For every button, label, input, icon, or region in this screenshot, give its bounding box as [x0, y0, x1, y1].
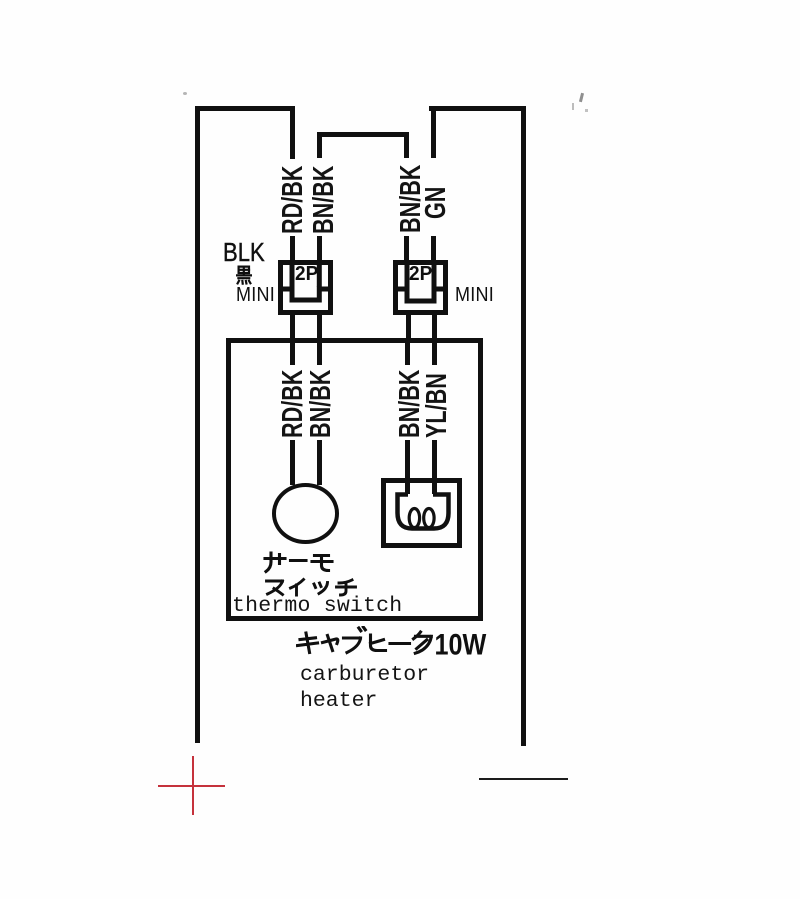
wire: GN drop from top-right harness: [431, 106, 436, 158]
wire: RD/BK stub inside box: [290, 343, 295, 365]
wire: BN/BK stub into right connector: [404, 236, 409, 261]
wire: BN/BK stub inside box (right): [405, 343, 410, 365]
svg-text:10W: 10W: [435, 627, 488, 659]
label: thermo switch (Japanese katakana, line 1): [263, 551, 335, 574]
wire: BN/BK from left connector to component box: [317, 315, 322, 341]
label: wire BN/BK (upper, right connector): [397, 165, 426, 233]
label: thermo switch (Japanese katakana, line 2): [264, 576, 360, 597]
label: kanji black (kuro): [236, 265, 252, 285]
wire: outer harness top-right horizontal: [429, 106, 526, 111]
connector: left 2P MINI (black): [278, 260, 333, 315]
label: MINI (right connector size): [455, 285, 494, 305]
wire: GN stub into right connector: [431, 236, 436, 261]
wire: YL/BN stub inside box: [432, 343, 437, 365]
label: BLK (connector colour): [223, 239, 265, 265]
wire: BN/BK stub inside box: [317, 343, 322, 365]
thermo switch circle: [272, 483, 340, 544]
heater element: cup and coil: [376, 472, 468, 552]
label: MINI (left connector size): [236, 285, 275, 305]
wire: jumper bracket left stub: [317, 132, 322, 158]
wire: RD/BK stub into left connector: [290, 236, 295, 261]
wire: outer harness left vertical: [195, 106, 200, 743]
connector: right 2P MINI: [393, 260, 448, 315]
wire: jumper bracket right stub: [404, 132, 409, 158]
wire: BN/BK to heater element: [405, 440, 410, 494]
scan mark: short black rule: [479, 778, 568, 780]
label: wire GN (upper, right connector): [422, 186, 451, 218]
label: wire RD/BK (upper, left connector): [279, 165, 308, 233]
registration mark: red cross: [158, 785, 225, 787]
wire: BN/BK from right connector to component box: [406, 315, 411, 341]
wire: BN/BK to thermo switch: [317, 440, 322, 485]
label: thermo switch (english): [232, 596, 402, 618]
label: wire BN/BK (inside box, right): [396, 370, 425, 438]
label: carburetor heater (english): [300, 665, 429, 687]
scan speckles: [183, 92, 187, 95]
wire: jumper bracket horizontal (BN/BK to BN/BK): [317, 132, 409, 137]
wire: RD/BK to thermo switch: [290, 440, 295, 485]
component box: thermo switch + carburetor heater: [226, 338, 483, 621]
wire: RD/BK from left connector to component box: [290, 315, 295, 341]
wire: outer harness right vertical: [521, 106, 526, 746]
wire: YL/BN from right connector to component box: [432, 315, 437, 341]
label: wire YL/BN (inside box): [423, 373, 452, 438]
label: wire BN/BK (inside box): [307, 370, 336, 438]
wire: BN/BK stub into left connector: [317, 236, 322, 261]
label: carburetor heater 10W (Japanese katakana): [296, 626, 491, 659]
label: wire BN/BK (upper, left connector): [310, 165, 339, 233]
carburetor heater box: [381, 478, 462, 548]
label: wire RD/BK (inside box): [279, 370, 308, 438]
wire: outer harness top-left horizontal: [195, 106, 295, 111]
wire: YL/BN to heater element: [432, 440, 437, 494]
wire: RD/BK drop from top-left harness: [290, 106, 295, 159]
